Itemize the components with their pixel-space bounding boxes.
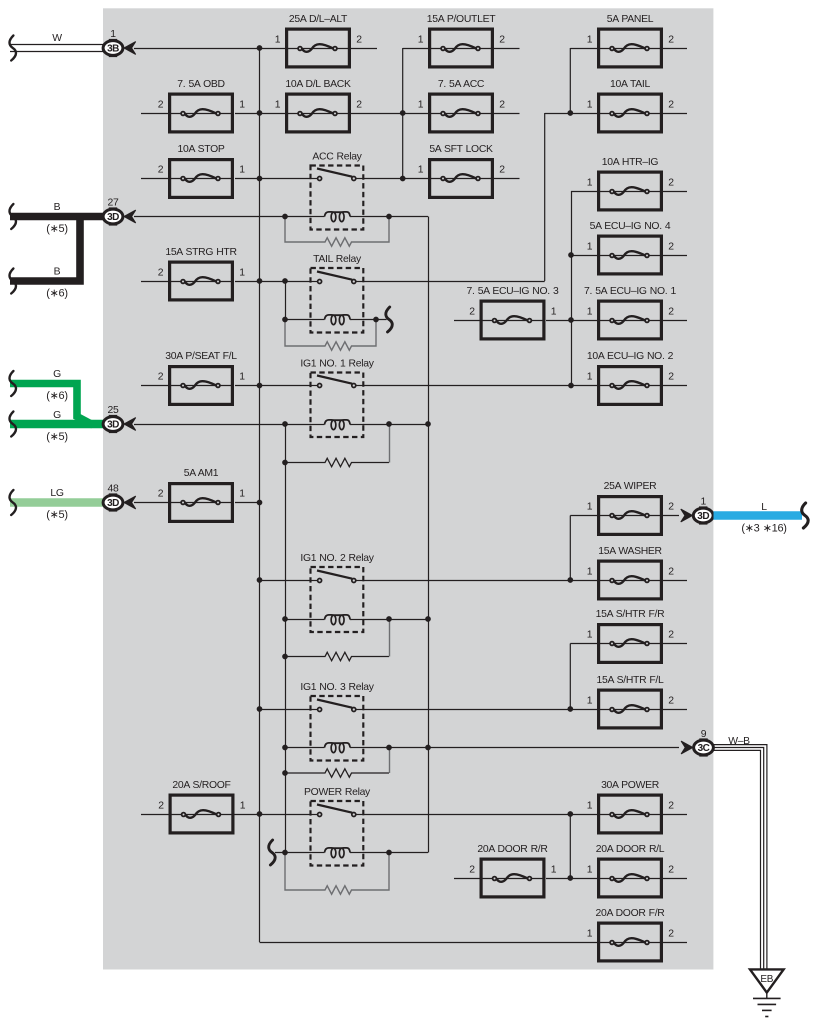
svg-text:2: 2 xyxy=(668,928,674,939)
svg-text:3B: 3B xyxy=(107,44,119,55)
svg-text:IG1 NO. 2 Relay: IG1 NO. 2 Relay xyxy=(300,553,374,564)
svg-text:2: 2 xyxy=(668,306,674,317)
svg-text:2: 2 xyxy=(668,371,674,382)
svg-text:30A POWER: 30A POWER xyxy=(601,780,660,791)
svg-text:3C: 3C xyxy=(698,743,710,754)
svg-text:B: B xyxy=(54,202,61,213)
svg-text:1: 1 xyxy=(587,566,593,577)
svg-text:1: 1 xyxy=(587,864,593,875)
svg-text:2: 2 xyxy=(158,488,164,499)
svg-text:2: 2 xyxy=(469,864,475,875)
svg-text:3D: 3D xyxy=(697,511,709,522)
svg-text:TAIL Relay: TAIL Relay xyxy=(313,254,362,265)
svg-text:2: 2 xyxy=(668,695,674,706)
svg-text:25: 25 xyxy=(108,405,119,416)
svg-text:2: 2 xyxy=(668,241,674,252)
svg-text:(∗6): (∗6) xyxy=(46,390,67,402)
svg-text:2: 2 xyxy=(469,306,475,317)
svg-text:1: 1 xyxy=(275,34,281,45)
svg-text:2: 2 xyxy=(158,99,164,110)
svg-text:1: 1 xyxy=(240,800,246,811)
svg-text:(∗5): (∗5) xyxy=(46,431,67,443)
svg-text:G: G xyxy=(53,410,61,421)
svg-text:2: 2 xyxy=(668,34,674,45)
svg-text:30A P/SEAT F/L: 30A P/SEAT F/L xyxy=(165,351,237,362)
svg-text:2: 2 xyxy=(499,99,505,110)
svg-text:2: 2 xyxy=(668,629,674,640)
svg-text:10A TAIL: 10A TAIL xyxy=(610,79,650,90)
svg-text:27: 27 xyxy=(108,198,119,209)
svg-text:7. 5A ECU–IG NO. 3: 7. 5A ECU–IG NO. 3 xyxy=(467,286,559,297)
svg-text:W: W xyxy=(52,33,62,44)
svg-text:LG: LG xyxy=(50,488,63,499)
svg-text:10A STOP: 10A STOP xyxy=(177,144,224,155)
svg-text:2: 2 xyxy=(158,164,164,175)
svg-text:3D: 3D xyxy=(107,498,119,509)
svg-text:15A S/HTR F/R: 15A S/HTR F/R xyxy=(596,609,665,620)
svg-text:W–B: W–B xyxy=(728,736,750,747)
svg-text:1: 1 xyxy=(587,928,593,939)
svg-text:(∗5): (∗5) xyxy=(46,223,67,235)
svg-text:POWER Relay: POWER Relay xyxy=(304,787,371,798)
svg-text:7. 5A OBD: 7. 5A OBD xyxy=(177,79,224,90)
svg-text:20A S/ROOF: 20A S/ROOF xyxy=(172,780,230,791)
svg-text:1: 1 xyxy=(587,371,593,382)
svg-text:2: 2 xyxy=(668,99,674,110)
svg-text:2: 2 xyxy=(158,267,164,278)
svg-text:7. 5A ACC: 7. 5A ACC xyxy=(438,79,485,90)
svg-text:1: 1 xyxy=(239,164,245,175)
svg-text:5A SFT LOCK: 5A SFT LOCK xyxy=(429,144,493,155)
svg-text:5A ECU–IG NO. 4: 5A ECU–IG NO. 4 xyxy=(590,221,671,232)
svg-text:1: 1 xyxy=(239,99,245,110)
svg-text:1: 1 xyxy=(587,34,593,45)
svg-text:2: 2 xyxy=(668,501,674,512)
svg-text:2: 2 xyxy=(668,177,674,188)
svg-text:1: 1 xyxy=(587,629,593,640)
svg-text:1: 1 xyxy=(587,99,593,110)
svg-text:1: 1 xyxy=(551,306,557,317)
svg-text:1: 1 xyxy=(551,864,557,875)
svg-text:1: 1 xyxy=(239,488,245,499)
svg-text:1: 1 xyxy=(239,371,245,382)
svg-text:(∗3 ∗16): (∗3 ∗16) xyxy=(741,523,786,535)
svg-text:10A D/L BACK: 10A D/L BACK xyxy=(285,79,351,90)
svg-text:B: B xyxy=(54,267,61,278)
svg-text:25A D/L–ALT: 25A D/L–ALT xyxy=(289,14,348,25)
svg-text:2: 2 xyxy=(668,864,674,875)
svg-text:1: 1 xyxy=(587,695,593,706)
svg-text:1: 1 xyxy=(418,34,424,45)
svg-text:(∗5): (∗5) xyxy=(46,509,67,521)
svg-text:1: 1 xyxy=(587,306,593,317)
svg-text:2: 2 xyxy=(158,371,164,382)
svg-text:1: 1 xyxy=(700,497,706,508)
svg-text:2: 2 xyxy=(499,164,505,175)
svg-text:2: 2 xyxy=(668,800,674,811)
svg-text:10A HTR–IG: 10A HTR–IG xyxy=(602,157,659,168)
svg-text:5A AM1: 5A AM1 xyxy=(184,468,219,479)
svg-text:5A PANEL: 5A PANEL xyxy=(607,14,654,25)
svg-text:1: 1 xyxy=(418,99,424,110)
svg-text:ACC Relay: ACC Relay xyxy=(312,152,362,163)
svg-text:IG1 NO. 3 Relay: IG1 NO. 3 Relay xyxy=(300,682,374,693)
svg-text:15A STRG HTR: 15A STRG HTR xyxy=(165,247,237,258)
svg-text:1: 1 xyxy=(418,164,424,175)
svg-text:20A DOOR R/L: 20A DOOR R/L xyxy=(596,844,665,855)
svg-text:1: 1 xyxy=(587,241,593,252)
svg-text:1: 1 xyxy=(587,177,593,188)
svg-text:7. 5A ECU–IG NO. 1: 7. 5A ECU–IG NO. 1 xyxy=(584,286,676,297)
svg-text:3D: 3D xyxy=(107,212,119,223)
svg-text:2: 2 xyxy=(356,34,362,45)
svg-text:G: G xyxy=(53,369,61,380)
svg-text:2: 2 xyxy=(356,99,362,110)
svg-text:1: 1 xyxy=(239,267,245,278)
svg-text:15A S/HTR F/L: 15A S/HTR F/L xyxy=(597,675,664,686)
svg-text:1: 1 xyxy=(587,501,593,512)
svg-text:20A DOOR R/R: 20A DOOR R/R xyxy=(477,844,548,855)
svg-text:3D: 3D xyxy=(107,420,119,431)
svg-text:2: 2 xyxy=(499,34,505,45)
svg-text:25A WIPER: 25A WIPER xyxy=(604,481,657,492)
svg-text:48: 48 xyxy=(108,484,119,495)
svg-text:1: 1 xyxy=(275,99,281,110)
svg-text:IG1 NO. 1 Relay: IG1 NO. 1 Relay xyxy=(300,359,374,370)
svg-text:2: 2 xyxy=(668,566,674,577)
svg-text:2: 2 xyxy=(158,800,164,811)
svg-text:15A P/OUTLET: 15A P/OUTLET xyxy=(427,14,496,25)
svg-text:L: L xyxy=(761,502,767,513)
svg-text:1: 1 xyxy=(110,29,116,40)
svg-text:15A WASHER: 15A WASHER xyxy=(598,546,662,557)
svg-text:EB: EB xyxy=(760,974,773,985)
svg-text:10A ECU–IG NO. 2: 10A ECU–IG NO. 2 xyxy=(587,351,674,362)
svg-text:20A DOOR F/R: 20A DOOR F/R xyxy=(596,908,666,919)
svg-text:1: 1 xyxy=(587,800,593,811)
svg-text:9: 9 xyxy=(701,729,707,740)
svg-text:(∗6): (∗6) xyxy=(46,288,67,300)
